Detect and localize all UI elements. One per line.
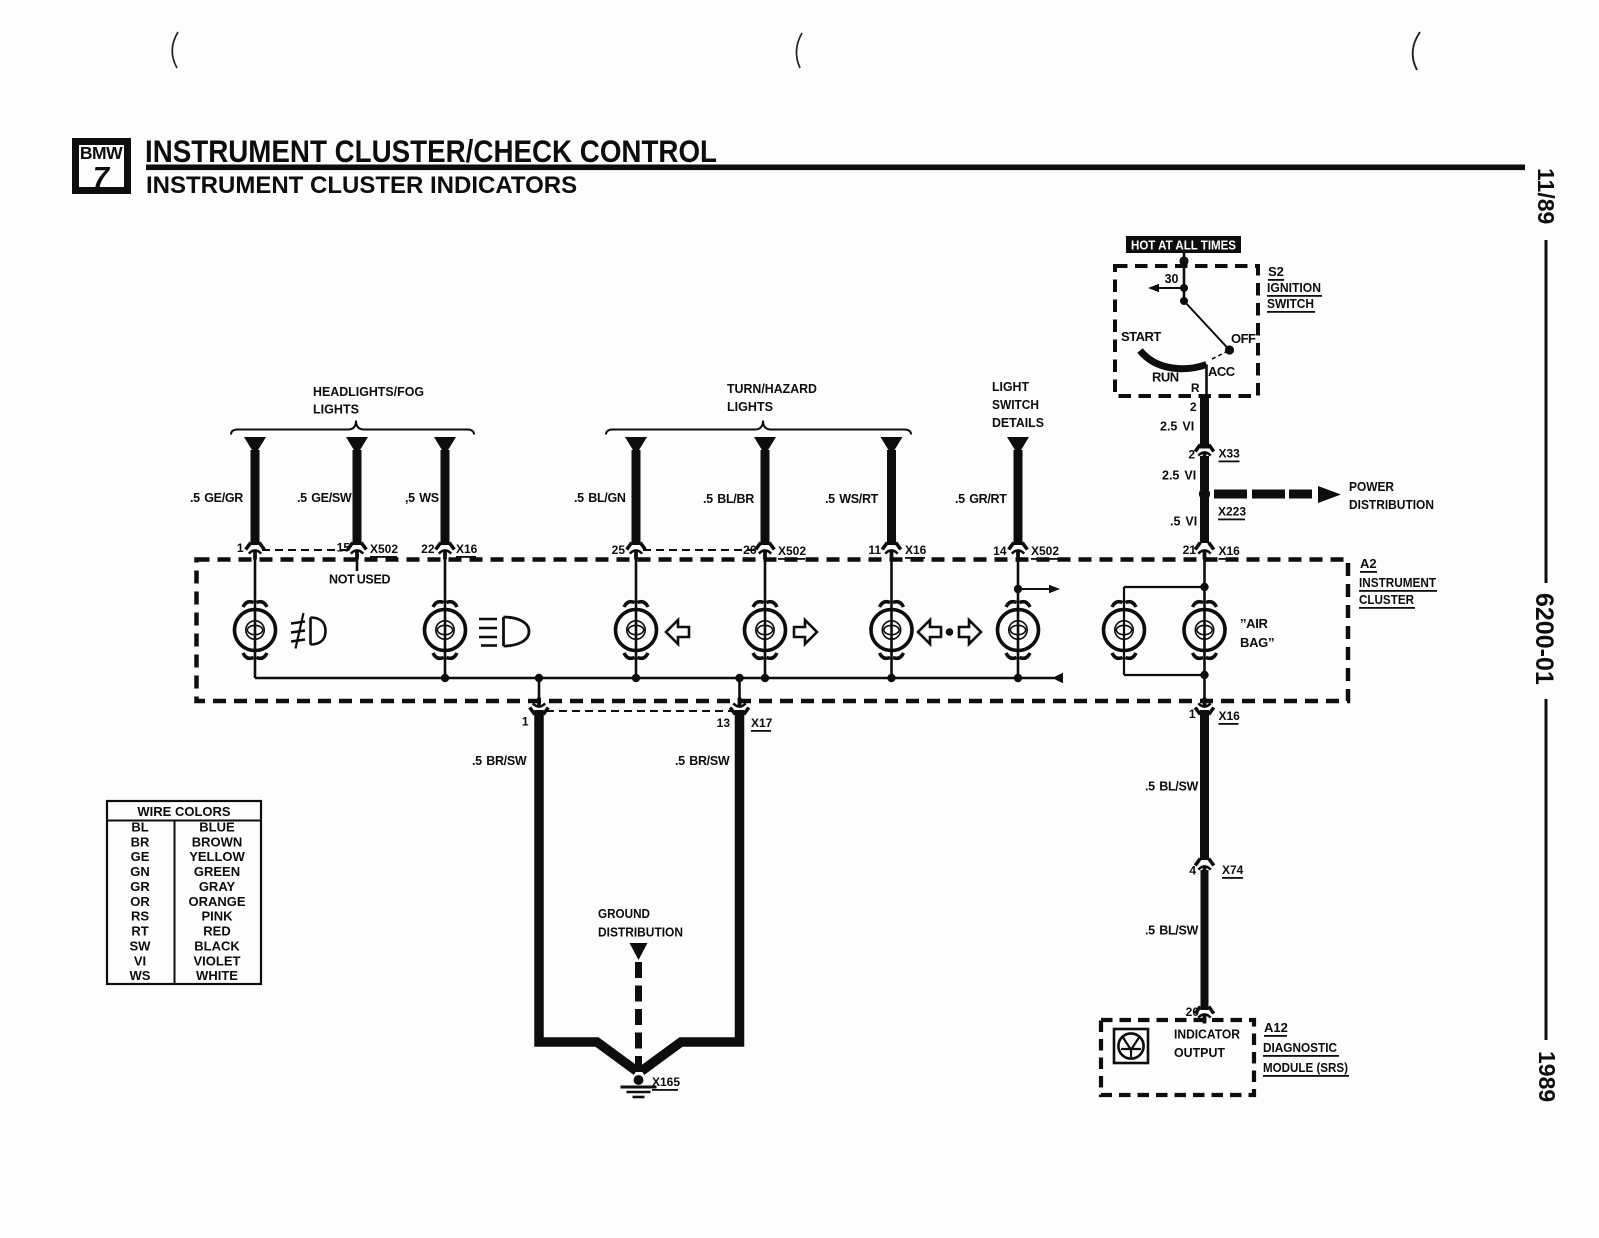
wire ground bus [255,677,1054,680]
svg-text:INDICATOR: INDICATOR [1174,1027,1241,1042]
bus end arrowhead [1052,673,1063,684]
svg-text:X502: X502 [778,544,806,558]
wire battery feed into switch [1183,252,1186,301]
connector X16 pin 22 entry [436,543,455,560]
node bus lamp 5 [887,674,895,682]
wire lamp column 8 from pin 21 [1203,558,1206,703]
wire 1 .5 GE/GR arrow [244,437,266,455]
svg-text:X502: X502 [1031,544,1059,558]
svg-text:1: 1 [522,715,529,729]
wire lamp column 6 [1017,558,1020,678]
wire 7 .5 GR/RT arrow [1007,437,1029,455]
wire colors legend table [107,801,261,984]
node air bag bottom junction [1200,671,1208,679]
wire dashed ground feed [635,962,642,1072]
svg-text:22: 22 [421,542,435,556]
svg-text:INSTRUMENT CLUSTER INDICATORS: INSTRUMENT CLUSTER INDICATORS [146,172,577,199]
svg-text:LIGHT: LIGHT [992,379,1029,394]
svg-text:POWER: POWER [1349,479,1395,494]
svg-text:SW: SW [130,938,152,953]
wire lamp column 5 [890,558,893,678]
node bus lamp 6 [1014,674,1022,682]
wire R terminal [1205,365,1208,400]
svg-text:,5 WS: ,5 WS [405,491,439,505]
svg-text:.5 GR/RT: .5 GR/RT [955,492,1007,506]
svg-text:.5 VI: .5 VI [1170,515,1197,529]
node bus stub pin 13 [735,674,743,682]
connector X17 pin 13 exit [730,698,749,715]
icon headlight [479,617,529,646]
connector pin 1 entry [246,543,265,560]
svg-text:2: 2 [1188,448,1195,462]
node bus lamp 3 [632,674,640,682]
wire .5 BL/SW upper [1200,710,1209,860]
svg-text:X16: X16 [1219,709,1241,723]
svg-text:30: 30 [1165,272,1179,286]
svg-text:25: 25 [612,543,626,557]
svg-text:OFF: OFF [1231,331,1256,346]
svg-text:BMW: BMW [80,143,123,163]
svg-text:DIAGNOSTIC: DIAGNOSTIC [1263,1040,1338,1055]
svg-text:.5 GE/SW: .5 GE/SW [297,491,352,505]
wire 4 .5 BL/GN arrow [625,437,647,455]
BMW 7 logo box [76,142,128,195]
node bus stub pin 1 [535,674,543,682]
svg-text:.5 GE/GR: .5 GE/GR [190,491,243,505]
svg-text:DISTRIBUTION: DISTRIBUTION [1349,497,1434,512]
wire 2 .5 GE/SW arrow [346,437,368,455]
svg-text:X16: X16 [456,542,478,556]
svg-text:BR: BR [131,834,150,849]
A12 module symbol [1114,1029,1148,1063]
node bus lamp 4 [761,674,769,682]
svg-text:NOT USED: NOT USED [329,573,390,587]
svg-text:START: START [1121,329,1161,344]
svg-text:13: 13 [717,716,731,730]
wire stub to pin 1 X17 [538,678,541,703]
wire lamp column 1 [254,558,257,678]
punch mark right [1413,32,1420,70]
wire dashed power distribution arrow [1214,486,1341,503]
svg-text:2.5 VI: 2.5 VI [1162,469,1196,483]
svg-text:BLACK: BLACK [194,938,240,953]
svg-text:1: 1 [237,541,244,555]
lamp 5 hazard indicator [871,602,912,659]
svg-text:DISTRIBUTION: DISTRIBUTION [598,925,683,940]
svg-text:’’AIR: ’’AIR [1240,616,1269,631]
margin rule upper [1545,240,1548,583]
svg-text:A2: A2 [1360,556,1377,571]
lamp 3 left turn indicator [616,602,657,659]
lamp 6 light switch indicator [998,602,1039,659]
svg-text:HOT AT ALL TIMES: HOT AT ALL TIMES [1131,239,1236,253]
lamp 4 right turn indicator [745,602,786,659]
switch rotary arc START to ACC [1140,351,1207,369]
title underline bar [146,165,1525,171]
svg-text:DETAILS: DETAILS [992,415,1044,430]
wire terminal 30 arrow left [1156,287,1184,289]
node air bag top junction [1200,583,1208,591]
connector X502 pin 14 entry [1009,543,1028,560]
wire arrow to light switch details [1018,588,1050,590]
wire lamp column 3 [635,558,638,678]
icon hazard arrows [918,620,981,644]
wire dashed connector link X17 pins [546,710,732,712]
connector X16 pin 21 entry [1195,543,1214,560]
svg-text:OR: OR [130,894,150,909]
svg-text:14: 14 [993,544,1007,558]
node OFF contact dot [1225,345,1234,354]
svg-text:WS: WS [130,968,151,983]
svg-text:BAG’’: BAG’’ [1240,635,1274,650]
svg-text:GROUND: GROUND [598,906,650,921]
svg-text:X16: X16 [905,543,927,557]
HOT AT ALL TIMES label [1126,236,1241,253]
svg-text:GRAY: GRAY [199,879,236,894]
wire stub pin 15 not used [356,559,359,571]
node bus lamp 2 [441,674,449,682]
ground feed arrowhead [630,943,648,960]
wire 6 .5 WS/RT arrow [881,437,903,455]
svg-text:15: 15 [337,541,351,555]
svg-text:ACC: ACC [1208,364,1236,379]
svg-text:OUTPUT: OUTPUT [1174,1045,1225,1060]
wire lamp column 7 [1123,587,1125,675]
punch mark center [796,33,802,68]
wire .5 BR/SW right to ground [642,710,740,1071]
A2 instrument cluster dashed box [197,560,1349,702]
icon left arrow [666,620,689,644]
svg-text:RED: RED [203,924,230,939]
svg-text:1989: 1989 [1534,1051,1560,1102]
wire 5 .5 BL/BR arrow [754,437,776,455]
connector X16 pin 11 entry [882,543,901,560]
svg-text:X223: X223 [1218,505,1246,519]
svg-text:2.5 VI: 2.5 VI [1160,420,1194,434]
svg-text:GE: GE [131,849,150,864]
icon fog light [291,613,326,649]
svg-text:6200-01: 6200-01 [1530,593,1558,685]
punch mark left [172,32,178,68]
connector X33 inline [1195,445,1214,462]
lamp 8 airbag indicator b [1184,602,1225,659]
svg-text:LIGHTS: LIGHTS [313,402,359,417]
A12 diagnostic module dashed box [1101,1020,1254,1095]
node battery feed dot [1179,256,1188,265]
svg-text:HEADLIGHTS/FOG: HEADLIGHTS/FOG [313,384,424,399]
wire .5 BR/SW left to ground [539,710,637,1071]
svg-text:IGNITION: IGNITION [1267,280,1321,295]
wire bottom link lamp 7 to 8 [1124,674,1205,676]
connector X74 inline [1195,859,1214,876]
connector X17 pin 1 exit [530,698,549,715]
svg-text:X16: X16 [1219,544,1241,558]
svg-text:X74: X74 [1222,863,1244,877]
svg-text:GR: GR [130,879,150,894]
svg-text:7: 7 [93,162,111,194]
connector X502 pin 15 entry [348,543,367,560]
svg-text:A12: A12 [1264,1020,1288,1035]
svg-text:INSTRUMENT CLUSTER/CHECK CONTR: INSTRUMENT CLUSTER/CHECK CONTROL [145,133,717,169]
lamp 7 airbag indicator a [1104,602,1145,659]
wire top link to lamp 7 [1124,586,1205,588]
svg-text:SWITCH: SWITCH [992,397,1039,412]
svg-text:X502: X502 [370,542,398,556]
node light switch details tap [1014,585,1022,593]
svg-text:GN: GN [130,864,150,879]
svg-text:X17: X17 [751,716,773,730]
connector pin 25 entry [627,543,646,560]
node terminal 30 junction [1180,284,1188,292]
svg-text:1: 1 [1189,707,1196,721]
svg-text:.5 BL/SW: .5 BL/SW [1145,780,1199,794]
svg-text:VIOLET: VIOLET [194,953,241,968]
svg-text:YELLOW: YELLOW [189,849,245,864]
wire .5 BL/SW lower [1201,870,1209,1010]
lamp 1 fog indicator [235,602,276,659]
ignition switch S2 dashed box [1115,266,1258,396]
ground X165 [621,1075,657,1097]
svg-text:4: 4 [1189,864,1196,878]
svg-text:R: R [1191,381,1200,395]
svg-text:PINK: PINK [201,909,233,924]
svg-text:.5 BR/SW: .5 BR/SW [675,754,730,768]
wire lamp column 4 [764,558,767,678]
svg-text:INSTRUMENT: INSTRUMENT [1359,575,1436,590]
svg-text:WHITE: WHITE [196,968,238,983]
wire lamp column 2 [444,558,447,678]
svg-text:.5 BL/GN: .5 BL/GN [574,491,626,505]
svg-text:GREEN: GREEN [194,864,240,879]
wire .5 VI [1200,494,1209,543]
svg-text:.5 BL/BR: .5 BL/BR [703,492,754,506]
wire dashed ACC to OFF [1212,352,1227,360]
brace headlights group [231,421,474,435]
svg-text:X165: X165 [652,1075,680,1089]
brace turn/hazard group [606,421,911,435]
svg-text:.5 WS/RT: .5 WS/RT [825,492,879,506]
svg-text:SWITCH: SWITCH [1267,296,1314,311]
svg-text:11/89: 11/89 [1533,168,1559,224]
svg-text:TURN/HAZARD: TURN/HAZARD [727,381,817,396]
wire stub to pin 13 X17 [738,678,741,703]
svg-text:RT: RT [131,924,148,939]
wire switch wiper to OFF [1184,301,1230,350]
wire 2.5 VI from ignition [1200,396,1209,449]
svg-text:LIGHTS: LIGHTS [727,399,773,414]
connector X502 pin 26 entry [756,543,775,560]
svg-text:ORANGE: ORANGE [188,894,245,909]
svg-text:2: 2 [1190,400,1197,414]
wire dashed connector link pins 1-15 [262,549,350,551]
svg-text:11: 11 [868,543,881,557]
svg-text:RUN: RUN [1152,370,1179,385]
connector X16 pin 1 exit [1195,698,1214,715]
svg-text:X33: X33 [1219,447,1241,461]
node switch pivot [1180,297,1188,305]
lamp 2 high beam indicator [425,602,466,659]
svg-text:BLUE: BLUE [199,820,235,835]
connector pin 20 entry [1195,1007,1214,1024]
wire 2.5 VI below X33 [1200,456,1209,490]
svg-text:S2: S2 [1268,264,1284,279]
wire dashed connector link pins 25-26 [643,549,758,551]
svg-text:.5 BR/SW: .5 BR/SW [472,754,527,768]
svg-text:21: 21 [1183,543,1197,557]
margin rule lower [1545,699,1548,1040]
svg-text:.5 BL/SW: .5 BL/SW [1145,924,1199,938]
svg-text:RS: RS [131,909,149,924]
icon right arrow [794,620,817,644]
node X223 power tap [1199,488,1210,499]
svg-text:BL: BL [131,820,148,835]
svg-text:VI: VI [134,953,146,968]
svg-text:MODULE (SRS): MODULE (SRS) [1263,1060,1348,1075]
svg-text:WIRE COLORS: WIRE COLORS [137,804,230,819]
wire 3 ,5 WS arrow [434,437,456,455]
svg-text:CLUSTER: CLUSTER [1359,592,1415,607]
svg-text:BROWN: BROWN [192,834,243,849]
